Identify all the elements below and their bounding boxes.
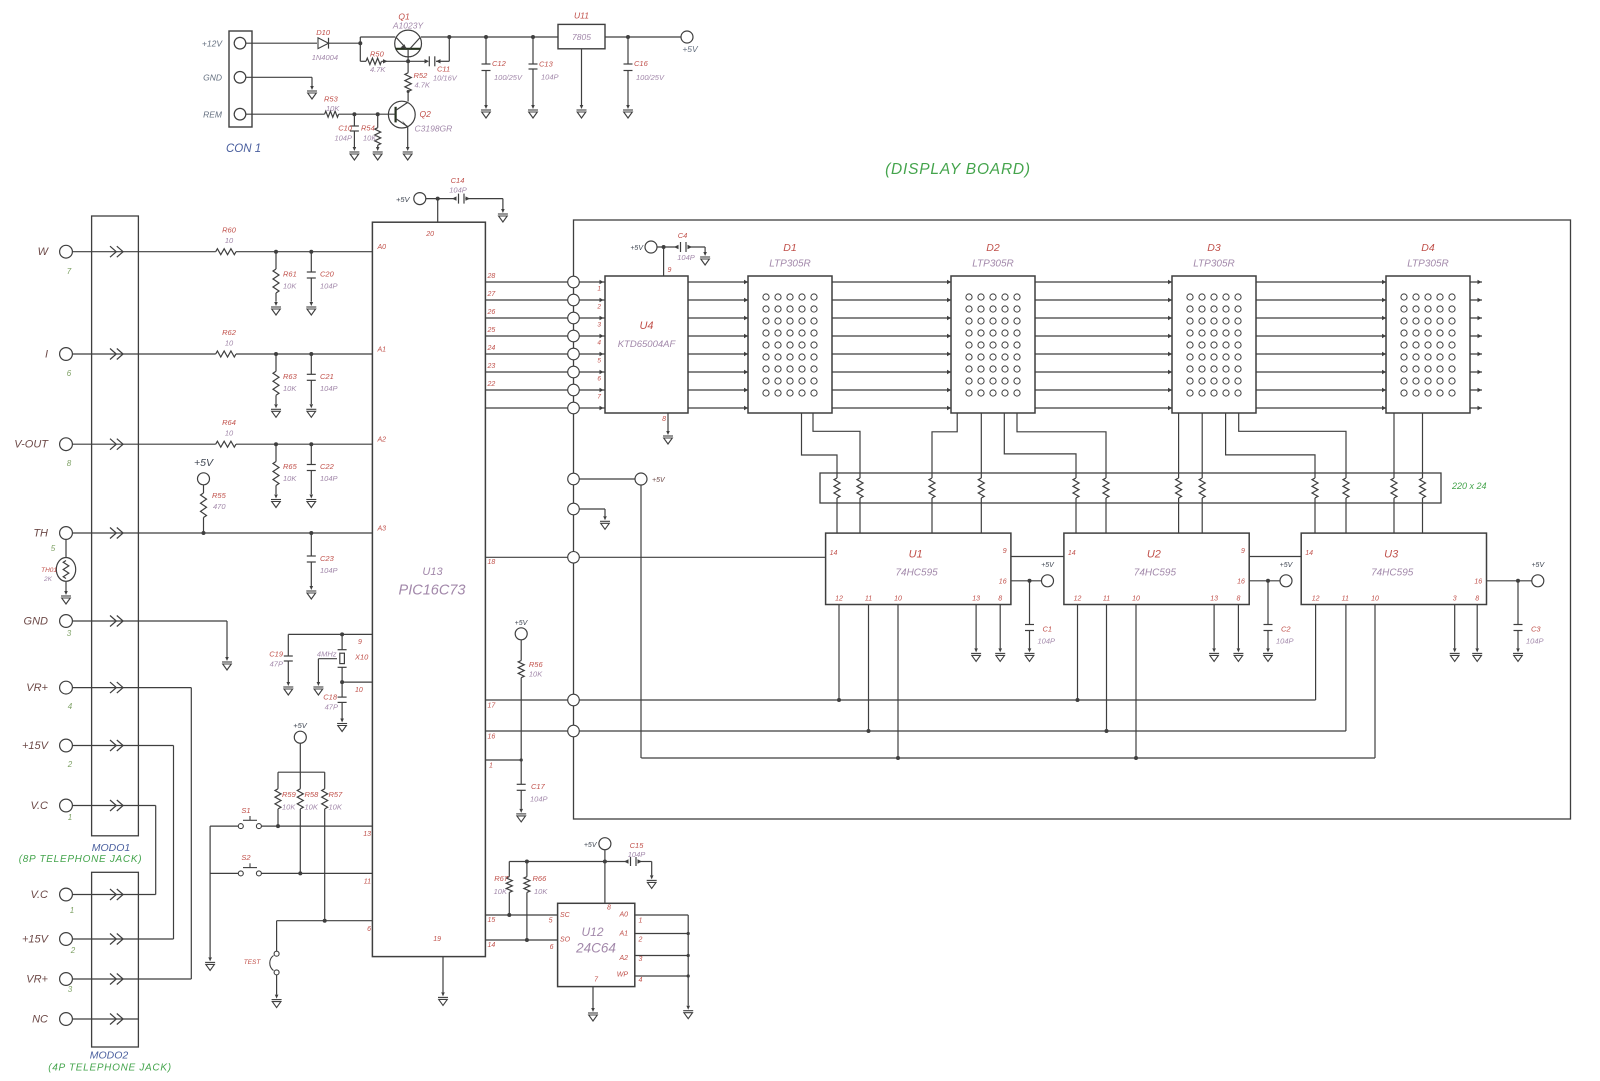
- svg-text:R65: R65: [283, 462, 298, 471]
- svg-text:(DISPLAY BOARD): (DISPLAY BOARD): [885, 161, 1031, 178]
- svg-text:1: 1: [639, 918, 643, 925]
- svg-text:+5V: +5V: [1041, 562, 1055, 569]
- svg-text:23: 23: [487, 363, 496, 370]
- svg-text:C12: C12: [492, 59, 507, 68]
- svg-text:4.7K: 4.7K: [370, 65, 386, 74]
- svg-text:1: 1: [68, 813, 72, 822]
- svg-text:10K: 10K: [282, 803, 296, 812]
- svg-text:+5V: +5V: [515, 620, 529, 627]
- svg-text:C3: C3: [1531, 625, 1541, 634]
- svg-text:6: 6: [367, 926, 371, 933]
- svg-text:104P: 104P: [541, 73, 559, 82]
- svg-text:REM: REM: [203, 110, 223, 120]
- svg-text:10: 10: [225, 429, 234, 438]
- svg-text:D3: D3: [1207, 242, 1221, 254]
- svg-text:A1: A1: [618, 931, 628, 938]
- svg-text:C21: C21: [320, 372, 334, 381]
- svg-text:14: 14: [1068, 550, 1076, 557]
- svg-text:47P: 47P: [270, 660, 283, 669]
- svg-text:7805: 7805: [572, 32, 591, 42]
- svg-text:22: 22: [487, 381, 496, 388]
- svg-text:12: 12: [835, 596, 843, 603]
- svg-text:2K: 2K: [43, 576, 53, 583]
- svg-text:4: 4: [639, 977, 643, 984]
- svg-text:12: 12: [1074, 596, 1082, 603]
- svg-text:104P: 104P: [1526, 637, 1544, 646]
- svg-text:4: 4: [68, 702, 73, 711]
- svg-text:LTP305R: LTP305R: [1193, 259, 1235, 270]
- svg-text:10K: 10K: [534, 887, 548, 896]
- svg-text:S1: S1: [241, 806, 250, 815]
- svg-text:A2: A2: [618, 955, 628, 962]
- svg-text:470: 470: [213, 502, 226, 511]
- svg-text:A2: A2: [377, 437, 387, 444]
- svg-text:+15V: +15V: [22, 934, 50, 946]
- svg-text:(8P TELEPHONE JACK): (8P TELEPHONE JACK): [19, 854, 143, 865]
- svg-text:C11: C11: [437, 65, 450, 74]
- svg-text:13: 13: [972, 596, 980, 603]
- svg-text:GND: GND: [203, 73, 222, 83]
- svg-text:C2: C2: [1281, 625, 1291, 634]
- svg-text:4: 4: [597, 340, 601, 347]
- svg-text:+5V: +5V: [194, 457, 214, 469]
- svg-text:C18: C18: [323, 693, 338, 702]
- svg-text:100/25V: 100/25V: [636, 73, 665, 82]
- svg-text:R61: R61: [283, 270, 297, 279]
- svg-text:C1: C1: [1043, 625, 1053, 634]
- svg-text:104P: 104P: [677, 253, 695, 262]
- svg-text:C17: C17: [531, 782, 546, 791]
- svg-text:10: 10: [1371, 596, 1379, 603]
- svg-text:1: 1: [70, 906, 74, 915]
- svg-text:VR+: VR+: [26, 682, 48, 694]
- svg-text:74HC595: 74HC595: [1371, 568, 1414, 579]
- svg-text:2: 2: [638, 937, 643, 944]
- svg-text:C16: C16: [634, 59, 649, 68]
- svg-text:SC: SC: [560, 912, 571, 919]
- svg-text:6: 6: [597, 376, 601, 383]
- svg-text:24: 24: [487, 345, 496, 352]
- svg-text:R58: R58: [305, 790, 320, 799]
- svg-text:16: 16: [1237, 579, 1245, 586]
- svg-text:4.7K: 4.7K: [415, 81, 431, 90]
- svg-text:14: 14: [488, 942, 496, 949]
- svg-text:D1: D1: [783, 242, 796, 254]
- svg-text:U13: U13: [422, 566, 443, 578]
- svg-text:6: 6: [550, 944, 554, 951]
- svg-text:D4: D4: [1421, 242, 1435, 254]
- svg-text:104P: 104P: [320, 282, 338, 291]
- svg-text:C23: C23: [320, 554, 335, 563]
- svg-text:2: 2: [596, 304, 601, 311]
- svg-text:8: 8: [607, 905, 611, 912]
- svg-text:WP: WP: [617, 972, 629, 979]
- svg-text:A0: A0: [377, 244, 387, 251]
- svg-text:74HC595: 74HC595: [1134, 568, 1177, 579]
- svg-text:9: 9: [668, 267, 672, 274]
- svg-text:10: 10: [225, 339, 234, 348]
- svg-text:R66: R66: [533, 874, 548, 883]
- svg-text:10/16V: 10/16V: [433, 74, 458, 83]
- svg-text:A1: A1: [377, 347, 387, 354]
- svg-text:9: 9: [1241, 548, 1245, 555]
- svg-text:19: 19: [433, 936, 441, 943]
- svg-text:104P: 104P: [320, 474, 338, 483]
- svg-text:9: 9: [1003, 548, 1007, 555]
- svg-text:LTP305R: LTP305R: [769, 259, 811, 270]
- svg-text:47P: 47P: [325, 703, 338, 712]
- svg-text:(4P TELEPHONE JACK): (4P TELEPHONE JACK): [48, 1063, 172, 1074]
- svg-text:104P: 104P: [1276, 637, 1294, 646]
- svg-text:26: 26: [487, 309, 496, 316]
- svg-text:A3: A3: [377, 526, 387, 533]
- svg-text:R60: R60: [222, 226, 237, 235]
- svg-text:KTD65004AF: KTD65004AF: [618, 339, 677, 350]
- svg-text:8: 8: [1475, 596, 1479, 603]
- svg-text:C3198GR: C3198GR: [415, 124, 453, 134]
- svg-text:10K: 10K: [326, 104, 340, 113]
- svg-text:5: 5: [549, 918, 553, 925]
- svg-text:R53: R53: [324, 95, 339, 104]
- svg-text:9: 9: [358, 639, 362, 646]
- svg-text:74HC595: 74HC595: [895, 568, 938, 579]
- svg-text:U1: U1: [909, 549, 923, 561]
- svg-text:R63: R63: [283, 372, 298, 381]
- svg-text:C20: C20: [320, 270, 335, 279]
- svg-text:15: 15: [488, 917, 496, 924]
- svg-text:U12: U12: [581, 925, 603, 939]
- svg-text:7: 7: [597, 394, 601, 401]
- svg-text:C15: C15: [630, 841, 645, 850]
- svg-text:10: 10: [1132, 596, 1140, 603]
- svg-text:3: 3: [1453, 596, 1457, 603]
- svg-text:V-OUT: V-OUT: [14, 439, 49, 451]
- svg-text:S2: S2: [241, 853, 251, 862]
- svg-text:10: 10: [355, 687, 363, 694]
- svg-text:V.C: V.C: [30, 889, 48, 901]
- svg-text:+12V: +12V: [202, 39, 223, 49]
- svg-text:TEST: TEST: [244, 959, 262, 966]
- svg-text:18: 18: [488, 559, 496, 566]
- svg-text:8: 8: [67, 459, 72, 468]
- svg-text:1: 1: [597, 286, 601, 293]
- svg-text:25: 25: [487, 327, 496, 334]
- svg-text:TH01: TH01: [41, 567, 57, 574]
- svg-text:D10: D10: [316, 28, 331, 37]
- svg-text:10K: 10K: [305, 803, 319, 812]
- svg-text:1N4004: 1N4004: [312, 53, 338, 62]
- svg-text:4MHz: 4MHz: [317, 650, 337, 659]
- svg-text:16: 16: [1474, 579, 1482, 586]
- svg-text:104P: 104P: [1038, 637, 1056, 646]
- svg-text:2: 2: [70, 946, 76, 955]
- svg-text:R59: R59: [282, 790, 297, 799]
- svg-text:W: W: [38, 246, 50, 258]
- svg-text:+5V: +5V: [293, 721, 308, 730]
- svg-text:C22: C22: [320, 462, 335, 471]
- svg-text:+5V: +5V: [682, 44, 699, 54]
- svg-text:Q2: Q2: [420, 109, 432, 119]
- svg-text:+15V: +15V: [22, 740, 50, 752]
- svg-text:R67: R67: [494, 874, 509, 883]
- svg-text:VR+: VR+: [26, 974, 48, 986]
- svg-text:A1023Y: A1023Y: [392, 21, 425, 31]
- svg-text:13: 13: [1210, 596, 1218, 603]
- svg-text:11: 11: [1103, 596, 1110, 603]
- svg-text:R57: R57: [329, 790, 344, 799]
- svg-text:104P: 104P: [530, 795, 548, 804]
- svg-text:8: 8: [662, 416, 666, 423]
- svg-text:104P: 104P: [320, 384, 338, 393]
- svg-text:U11: U11: [574, 11, 589, 21]
- svg-text:10K: 10K: [529, 670, 543, 679]
- svg-text:10K: 10K: [329, 803, 343, 812]
- svg-text:20: 20: [425, 231, 434, 238]
- svg-text:10K: 10K: [283, 384, 297, 393]
- svg-text:C13: C13: [539, 60, 554, 69]
- svg-text:SO: SO: [560, 937, 571, 944]
- svg-text:104P: 104P: [628, 850, 646, 859]
- svg-text:5: 5: [597, 358, 601, 365]
- svg-text:220 x 24: 220 x 24: [1451, 481, 1487, 491]
- svg-text:10: 10: [225, 236, 234, 245]
- svg-text:1: 1: [489, 763, 493, 770]
- svg-text:C4: C4: [678, 231, 688, 240]
- svg-text:MODO2: MODO2: [90, 1050, 129, 1062]
- svg-text:8: 8: [1236, 596, 1240, 603]
- svg-text:R56: R56: [529, 660, 544, 669]
- svg-text:5: 5: [51, 544, 56, 553]
- svg-text:NC: NC: [32, 1014, 48, 1026]
- svg-text:R64: R64: [222, 418, 236, 427]
- svg-text:+5V: +5V: [584, 842, 598, 849]
- svg-text:3: 3: [597, 322, 601, 329]
- svg-text:14: 14: [1305, 550, 1313, 557]
- svg-text:A0: A0: [618, 912, 628, 919]
- svg-text:PIC16C73: PIC16C73: [399, 583, 466, 599]
- svg-text:13: 13: [363, 831, 371, 838]
- svg-text:11: 11: [1342, 596, 1349, 603]
- svg-text:10: 10: [894, 596, 902, 603]
- svg-text:16: 16: [999, 579, 1007, 586]
- svg-text:10K: 10K: [363, 134, 377, 143]
- svg-text:10K: 10K: [494, 887, 508, 896]
- svg-text:R50: R50: [370, 50, 385, 59]
- svg-text:TH: TH: [33, 528, 48, 540]
- svg-text:X10: X10: [354, 653, 369, 662]
- svg-text:27: 27: [487, 291, 497, 298]
- svg-text:3: 3: [639, 956, 643, 963]
- svg-text:R54: R54: [361, 124, 375, 133]
- svg-text:104P: 104P: [334, 134, 352, 143]
- svg-text:+5V: +5V: [396, 195, 411, 204]
- svg-text:17: 17: [488, 703, 497, 710]
- svg-text:100/25V: 100/25V: [494, 73, 523, 82]
- svg-text:R52: R52: [414, 71, 429, 80]
- svg-text:104P: 104P: [449, 186, 467, 195]
- svg-text:104P: 104P: [320, 566, 338, 575]
- svg-text:V.C: V.C: [30, 800, 48, 812]
- svg-text:11: 11: [364, 879, 371, 886]
- svg-text:GND: GND: [24, 616, 49, 628]
- svg-text:28: 28: [487, 273, 496, 280]
- svg-text:C14: C14: [451, 176, 465, 185]
- svg-text:R55: R55: [212, 491, 227, 500]
- svg-text:10K: 10K: [283, 474, 297, 483]
- svg-text:C19: C19: [269, 650, 284, 659]
- svg-text:12: 12: [1312, 596, 1320, 603]
- svg-text:3: 3: [67, 629, 72, 638]
- svg-text:D2: D2: [986, 242, 1000, 254]
- svg-text:C10: C10: [338, 124, 353, 133]
- svg-text:14: 14: [830, 550, 838, 557]
- svg-text:I: I: [45, 349, 48, 361]
- svg-text:U2: U2: [1147, 549, 1161, 561]
- svg-text:16: 16: [488, 734, 496, 741]
- svg-text:2: 2: [67, 760, 73, 769]
- svg-text:+5V: +5V: [1531, 562, 1545, 569]
- svg-text:U4: U4: [639, 320, 653, 332]
- svg-text:7: 7: [67, 267, 72, 276]
- svg-text:+5V: +5V: [1280, 562, 1294, 569]
- svg-text:3: 3: [68, 985, 73, 994]
- svg-text:8: 8: [998, 596, 1002, 603]
- svg-text:CON 1: CON 1: [226, 143, 261, 155]
- svg-text:MODO1: MODO1: [92, 842, 131, 854]
- svg-text:R62: R62: [222, 328, 237, 337]
- svg-text:+5V: +5V: [652, 477, 666, 484]
- svg-text:+5V: +5V: [630, 245, 644, 252]
- svg-text:U3: U3: [1384, 549, 1399, 561]
- svg-text:6: 6: [67, 369, 72, 378]
- svg-text:LTP305R: LTP305R: [1407, 259, 1449, 270]
- svg-text:24C64: 24C64: [575, 941, 616, 956]
- svg-text:LTP305R: LTP305R: [972, 259, 1014, 270]
- svg-text:11: 11: [865, 596, 872, 603]
- svg-text:10K: 10K: [283, 282, 297, 291]
